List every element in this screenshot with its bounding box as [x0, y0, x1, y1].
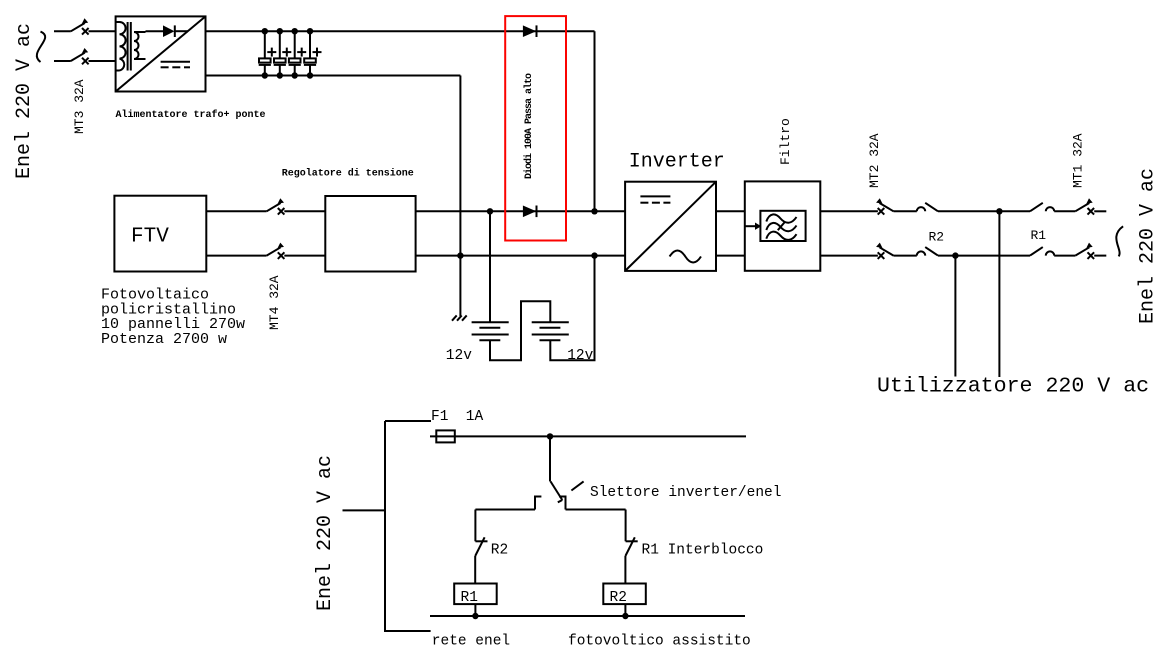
net Enel 220 V ac (bottom-left label) [314, 455, 337, 611]
svg-text:Utilizzatore 220 V ac: Utilizzatore 220 V ac [877, 375, 1149, 399]
breaker MT3 pole 2 [71, 48, 116, 64]
wire left branch rail [475, 509, 535, 511]
inverter dc symbol [640, 196, 670, 202]
contact R2 (left branch) [475, 510, 487, 584]
svg-text:R1: R1 [461, 590, 478, 606]
breaker MT2 pole 1 [876, 198, 938, 214]
svg-text:Diodi 100A Passa alto: Diodi 100A Passa alto [523, 73, 535, 179]
wire Enel L to MT3 pole 1 [54, 30, 71, 32]
label R1 Interblocco [642, 543, 764, 559]
svg-text:MT2 32A: MT2 32A [867, 133, 882, 188]
breaker MT4 pole 1 [267, 198, 326, 214]
svg-text:12v: 12v [567, 348, 593, 364]
svg-text:12v: 12v [446, 348, 472, 364]
svg-text:Slettore inverter/enel: Slettore inverter/enel [590, 485, 781, 501]
ground [452, 315, 467, 320]
label Inverter [629, 150, 725, 173]
label 12v (battery B2) [567, 348, 593, 364]
battery B2 12v [532, 322, 569, 340]
label Diodi 100A Passa alto [523, 73, 535, 179]
label R2 (contact) [929, 230, 945, 245]
label Regolatore di tensione [282, 167, 414, 179]
relay coil R2 [603, 584, 646, 617]
wire battery B1 to battery B2 bridge [490, 301, 550, 360]
capacitor C2 [274, 28, 292, 79]
ac source tilde (right) [1116, 226, 1123, 256]
breaker MT3 pole 1 [71, 18, 116, 34]
svg-text:R2: R2 [929, 230, 945, 245]
photovoltaic array FTV box [114, 196, 206, 272]
wire DC+ bus from power supply to diode box [206, 30, 595, 32]
wire bottom return rail [430, 615, 745, 617]
svg-text:rete enel: rete enel [432, 634, 510, 650]
breaker MT1 pole 1 [1030, 198, 1106, 214]
relay coil R1 [454, 584, 497, 617]
breaker MT4 pole 2 [267, 243, 326, 259]
svg-text:Enel 220 V ac: Enel 220 V ac [13, 23, 36, 179]
transformer T1 secondary coil [134, 31, 146, 59]
capacitor C4 [304, 28, 322, 79]
label Filtro [778, 118, 793, 165]
wire filter to MT2 (top) [820, 210, 878, 212]
svg-text:Potenza 2700 w: Potenza 2700 w [101, 331, 227, 348]
contact R1 (right branch) [625, 510, 637, 584]
node R1 coil to rail [472, 613, 478, 619]
wire Enel N to MT3 pole 2 [54, 60, 71, 62]
node selector common [547, 433, 553, 439]
label F1 1A [431, 409, 484, 425]
transformer T1 core [128, 22, 131, 71]
label R1 (contact) [1031, 228, 1047, 243]
svg-text:Filtro: Filtro [778, 118, 793, 165]
svg-text:F1 1A: F1 1A [431, 409, 484, 425]
svg-text:R1 Interblocco: R1 Interblocco [642, 543, 764, 559]
capacitor C3 [289, 28, 307, 79]
wire DC- bus regulator to inverter [416, 255, 625, 257]
label MT3 32A [72, 79, 87, 134]
node A (top tap to load) [996, 208, 1002, 214]
wire inverter to filter (top) [716, 210, 745, 212]
wire load drop line from node A [998, 211, 1000, 377]
wire load drop line from node B [954, 256, 956, 377]
wire battery B1 positive riser [489, 211, 491, 321]
svg-text:MT4 32A: MT4 32A [267, 275, 282, 330]
label rete enel [432, 634, 510, 650]
wire DC+ bus regulator to inverter [416, 210, 625, 212]
svg-text:MT3 32A: MT3 32A [72, 79, 87, 134]
selector left throw contact [535, 497, 541, 510]
label MT4 32A [267, 275, 282, 330]
diode inside power supply [146, 25, 189, 37]
wire FTV- to MT4 pole 2 [206, 255, 266, 257]
label Utilizzatore 220 V ac [877, 375, 1149, 399]
label MT2 32A [867, 133, 882, 188]
breaker pole 2 right (below MT1) [1030, 243, 1106, 259]
wire ground column [457, 76, 463, 317]
transformer T1 primary coil [116, 22, 126, 71]
node R2 coil to rail [622, 613, 628, 619]
svg-text:Enel 220 V ac: Enel 220 V ac [314, 455, 337, 611]
inverter U2 box [625, 182, 716, 271]
power supply U1 box (Alimentatore trafo+ponte) [116, 16, 206, 91]
breaker pole 2 left (below MT2) [876, 243, 938, 259]
wire DC- from power supply to ground column [206, 75, 461, 77]
inverter ac sine symbol [670, 251, 701, 263]
dc output symbol inside power supply [161, 62, 190, 68]
diode D1 (top, on DC+ from power supply) [523, 25, 537, 37]
capacitor C1 [259, 28, 277, 79]
wire battery B2 negative to DC- bus [550, 256, 594, 361]
label Fotovoltaico block [101, 287, 245, 348]
node battery1 top on DC+ bus [487, 208, 493, 214]
red highlight box Diodi [505, 16, 566, 240]
svg-text:MT1 32A: MT1 32A [1071, 133, 1086, 188]
wire R2 to node B (bottom) [938, 255, 1030, 257]
label Alimentatore trafo+ ponte [116, 109, 266, 121]
wire enel stub (bottom circuit) [343, 509, 385, 511]
filter box [745, 181, 821, 270]
svg-text:R2: R2 [491, 543, 508, 559]
filter inner symbol box [760, 211, 805, 241]
svg-text:FTV: FTV [131, 226, 169, 249]
voltage regulator box [325, 196, 415, 272]
filter arrow [745, 223, 761, 230]
selector right throw contact [559, 497, 565, 510]
node B (bottom tap to load) [952, 252, 958, 258]
label fotovoltico assistito [568, 634, 751, 650]
fuse F1 [430, 430, 746, 442]
svg-text:Regolatore di tensione: Regolatore di tensione [282, 167, 414, 179]
svg-text:fotovoltico assistito: fotovoltico assistito [568, 634, 751, 650]
svg-text:R1: R1 [1031, 228, 1047, 243]
battery B1 12v [472, 322, 509, 340]
svg-text:Enel 220 V ac: Enel 220 V ac [1137, 168, 1160, 324]
wire left feeder L-shape (bottom circuit) [385, 421, 431, 631]
ac source tilde (top-left) [37, 32, 45, 62]
wire MT2 to node A (top) [938, 210, 1030, 212]
net Enel 220 V ac (right label) [1137, 168, 1160, 324]
svg-text:Alimentatore trafo+ ponte: Alimentatore trafo+ ponte [116, 109, 266, 121]
label Slettore inverter/enel [590, 485, 781, 501]
net Enel 220 V ac (top-left label) [13, 23, 36, 179]
label MT1 32A [1071, 133, 1086, 188]
node battery2 on DC- bus [591, 252, 597, 258]
wire filter to R2 breaker (bottom) [820, 255, 878, 257]
svg-text:R2: R2 [610, 590, 627, 606]
label R2 (left contact) [491, 543, 508, 559]
wire diode D1 output down to DC+ bus [591, 31, 597, 214]
wire right branch rail [566, 509, 626, 511]
filter sine waves [766, 214, 796, 239]
svg-text:Inverter: Inverter [629, 150, 725, 173]
wire inverter to filter (bottom) [716, 255, 745, 257]
diode D2 (bottom, on DC+ bus) [523, 206, 537, 218]
wire FTV+ to MT4 pole 1 [206, 210, 266, 212]
selector switch (Slettore inverter/enel) [550, 436, 584, 502]
label 12v (battery B1) [446, 348, 472, 364]
